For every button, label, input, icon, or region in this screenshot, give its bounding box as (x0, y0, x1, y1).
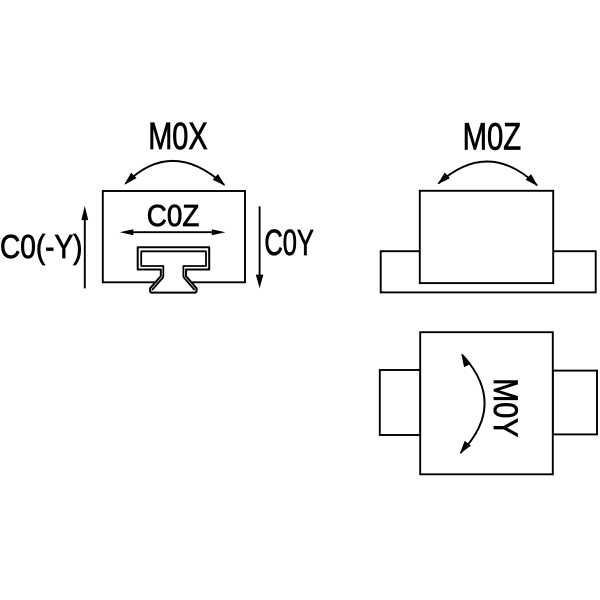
top view body square (420, 332, 553, 474)
side view body rectangle (420, 191, 553, 283)
arc arrowhead M0X right (213, 174, 226, 186)
arc arrowhead M0Z left (437, 173, 450, 185)
svg-text:M0X: M0X (148, 116, 208, 158)
top view right tab (553, 371, 597, 435)
rotation arc M0X (126, 161, 225, 185)
arc arrowhead M0Y bottom (460, 441, 471, 454)
svg-text:C0(-Y): C0(-Y) (0, 229, 83, 266)
arrowhead C0Z left (120, 229, 134, 235)
front view body rectangle (103, 191, 245, 282)
svg-text:M0Y: M0Y (486, 378, 524, 437)
arrowhead C0Y down (256, 275, 264, 289)
rotation arc M0Z (439, 161, 538, 185)
dimension arrow C0Z (double-headed) (124, 231, 221, 233)
arc arrowhead M0Z right (526, 174, 538, 186)
svg-text:C0Y: C0Y (264, 222, 314, 263)
arc arrowhead M0Y top (461, 354, 471, 368)
T-slot foot outer contour (138, 247, 210, 292)
svg-text:M0Z: M0Z (463, 117, 521, 159)
arc arrowhead M0X left (124, 173, 136, 185)
arrow C0Y downward (259, 206, 261, 284)
side view base plate (381, 251, 596, 292)
arrowhead C0(-Y) up (81, 206, 88, 220)
T-slot foot inner contour (141, 251, 206, 290)
arrowhead C0Z right (212, 229, 226, 235)
arrow C0(-Y) upward (84, 210, 86, 288)
svg-text:C0Z: C0Z (147, 198, 200, 233)
rotation arc M0Y (461, 355, 485, 454)
top view left tab (380, 370, 420, 435)
